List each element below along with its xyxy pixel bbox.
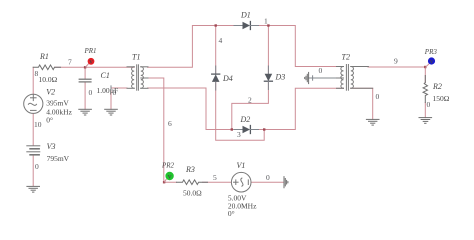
diode D2	[234, 126, 259, 134]
wire R3 to V1	[203, 181, 232, 183]
svg-text:V1: V1	[237, 161, 246, 170]
wire V2 bottom to V3 top	[32, 114, 34, 146]
ground below T1 primary	[105, 109, 118, 115]
svg-text:V: V	[430, 60, 434, 65]
svg-text:V3: V3	[47, 142, 56, 151]
svg-text:C1: C1	[101, 71, 110, 80]
svg-text:4: 4	[219, 36, 223, 45]
svg-text:D3: D3	[275, 73, 286, 82]
svg-text:3: 3	[237, 130, 241, 139]
junction node4	[215, 24, 217, 26]
svg-text:0: 0	[427, 100, 431, 109]
probe PR1	[86, 58, 95, 67]
svg-text:8: 8	[35, 69, 39, 78]
wire node1 to T2 primary top	[268, 26, 343, 67]
wire T2 tap to sideways ground	[309, 77, 344, 79]
transformer T1	[127, 65, 148, 90]
junction node7	[84, 66, 86, 68]
wire D1 to node1	[257, 25, 269, 27]
svg-text:0: 0	[376, 92, 380, 101]
ground sideways at T2 tap	[305, 72, 309, 83]
svg-text:V: V	[168, 174, 172, 180]
junction node1	[267, 24, 269, 26]
wire V1 to sideways ground	[251, 181, 284, 183]
resistor R1	[33, 65, 60, 70]
resistor R3	[177, 180, 208, 185]
svg-text:0: 0	[113, 88, 117, 97]
svg-text:D1: D1	[240, 11, 251, 20]
svg-text:V: V	[89, 60, 93, 65]
svg-text:PR1: PR1	[84, 47, 97, 55]
ac source V2	[24, 94, 43, 113]
pin tick T2 tap	[312, 76, 314, 80]
pin tick T1 bottom-left	[110, 86, 112, 90]
wire D3 bottom to node2 row to junction	[232, 81, 269, 129]
wire C1 top lead	[84, 67, 86, 79]
svg-text:0°: 0°	[228, 209, 235, 218]
resistor R2	[423, 76, 427, 103]
svg-text:R1: R1	[39, 52, 49, 61]
wire C1 junction to T1 primary top	[85, 66, 134, 68]
wire R2 bottom to ground	[424, 103, 426, 118]
svg-text:PR2: PR2	[161, 162, 175, 170]
wire C1 bottom to ground	[84, 82, 86, 109]
wire R1 to C1 junction	[55, 66, 86, 68]
ground below T2 secondary	[366, 119, 379, 125]
battery V3	[27, 146, 40, 155]
probe PR2	[164, 172, 174, 182]
wire V3 bottom to ground	[32, 155, 34, 186]
transformer T2	[337, 65, 373, 91]
svg-text:R3: R3	[185, 165, 195, 174]
wire T1 secondary bottom to D2 anode row	[148, 88, 243, 130]
junction node6 PR2	[163, 181, 165, 183]
ground below C1	[79, 109, 92, 115]
diode D1	[234, 22, 259, 30]
svg-text:V2: V2	[46, 88, 55, 97]
svg-text:D2: D2	[240, 115, 251, 124]
svg-text:0: 0	[35, 162, 39, 171]
ground below V3	[27, 186, 40, 192]
diode D3	[264, 66, 272, 90]
svg-text:PR3: PR3	[424, 48, 438, 56]
wire T2 secondary bottom to ground	[351, 88, 373, 119]
svg-text:395mV: 395mV	[46, 99, 69, 108]
ground below R2	[419, 118, 432, 124]
wire T1 secondary top to top row	[148, 26, 216, 68]
svg-text:5: 5	[213, 173, 217, 182]
wire T2 secondary top to node9 to R2	[368, 67, 425, 83]
svg-text:1: 1	[264, 16, 268, 25]
ground sideways at V1	[284, 177, 288, 188]
svg-text:150Ω: 150Ω	[433, 94, 450, 103]
svg-text:D4: D4	[222, 74, 233, 83]
svg-text:6: 6	[168, 119, 172, 128]
junction node3	[263, 128, 265, 130]
svg-text:0: 0	[266, 173, 270, 182]
svg-text:9: 9	[394, 57, 398, 66]
wire D2 cathode to T2 primary bottom	[251, 88, 344, 129]
svg-text:10: 10	[34, 120, 42, 129]
wire V2 top to R1 corner	[32, 67, 34, 94]
wire node1 down to D3	[267, 26, 269, 74]
svg-text:R2: R2	[432, 82, 442, 91]
junction node9 PR3	[424, 66, 426, 68]
svg-text:2: 2	[248, 95, 252, 104]
svg-text:7: 7	[68, 57, 72, 66]
wire T1 tap down to node6 PR2 corner	[148, 78, 177, 182]
svg-text:50.0Ω: 50.0Ω	[183, 189, 202, 198]
capacitor C1	[79, 79, 91, 82]
wire node4 to D1	[216, 25, 237, 27]
svg-text:0: 0	[89, 88, 93, 97]
svg-text:795mV: 795mV	[47, 154, 70, 163]
junction node2	[231, 128, 233, 130]
svg-text:0°: 0°	[46, 116, 53, 125]
wire T1 primary bottom to ground	[111, 88, 127, 109]
svg-text:T1: T1	[132, 53, 140, 62]
svg-text:10.0Ω: 10.0Ω	[39, 75, 58, 84]
wire D4 bottom loop to D2 cathode junction	[216, 82, 265, 141]
svg-text:0: 0	[319, 66, 323, 75]
diode D4	[212, 66, 220, 90]
ac source V1	[231, 172, 251, 192]
svg-text:T2: T2	[342, 53, 350, 62]
wire node4 down to D4	[215, 26, 217, 75]
probe PR3	[426, 57, 436, 67]
